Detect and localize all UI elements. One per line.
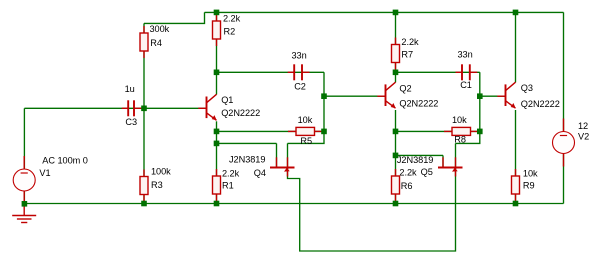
resistor R9 [512, 169, 520, 201]
node Q1 collector / C2 [214, 70, 220, 76]
svg-text:R1: R1 [222, 181, 234, 191]
svg-text:Q2N2222: Q2N2222 [399, 99, 438, 109]
node top rail / R2 [214, 10, 220, 16]
wire Q5 drain lead [442, 155, 444, 167]
svg-text:Q1: Q1 [221, 95, 233, 105]
wire top-left dogleg [144, 12, 205, 23]
svg-text:Q3: Q3 [521, 83, 533, 93]
node ground / V1 [22, 201, 28, 207]
svg-text:2.2k: 2.2k [223, 14, 241, 24]
resistor R2 [213, 14, 221, 46]
capacitor C2 [288, 64, 310, 80]
wire R7/Q2 collector column [395, 12, 397, 82]
node R6 / bottom rail [393, 201, 399, 207]
svg-text:R6: R6 [401, 181, 413, 191]
node R1 / bottom rail [214, 201, 220, 207]
svg-text:Q4: Q4 [254, 168, 266, 178]
resistor R1 [213, 169, 221, 201]
svg-text:V1: V1 [39, 168, 50, 178]
svg-text:12: 12 [578, 121, 588, 131]
svg-text:Q2N2222: Q2N2222 [521, 99, 560, 109]
node R8 / C1-out column [477, 129, 483, 135]
node top rail / Q3 collector [513, 10, 519, 16]
node Q1 emitter / R5 [214, 129, 220, 135]
wire bottom rail [24, 203, 563, 205]
wire Q4 source lead [287, 143, 289, 167]
wire Q3 emitter / R9 column [515, 110, 517, 204]
svg-text:10k: 10k [452, 115, 467, 125]
wire Q1 emitter column [216, 121, 218, 203]
wire Q3 base row [480, 95, 506, 97]
wire C2out/Q2base column [288, 72, 325, 143]
svg-text:R2: R2 [224, 27, 236, 37]
wire R8 row [396, 130, 480, 132]
wire row to Q5 drain [396, 154, 444, 156]
resistor R7 [392, 38, 400, 70]
svg-text:100k: 100k [151, 166, 171, 176]
svg-text:R8: R8 [454, 135, 466, 145]
svg-text:10k: 10k [298, 115, 313, 125]
wire Q2 base row [324, 95, 386, 97]
svg-text:R3: R3 [151, 180, 163, 190]
resistor R4 [140, 26, 148, 58]
wire V1 branch [23, 108, 25, 203]
wire row to Q4 drain [217, 142, 277, 144]
resistor R5 [288, 127, 322, 135]
svg-text:2.2k: 2.2k [222, 168, 240, 178]
svg-text:R5: R5 [300, 136, 312, 146]
resistor R8 [444, 127, 478, 135]
wire Q3 collector column [515, 12, 517, 82]
wire R2/Q1 collector column [216, 12, 218, 94]
voltage source V1 [13, 156, 35, 204]
svg-text:R9: R9 [523, 181, 535, 191]
node C2 out / Q2 base [321, 93, 327, 99]
svg-text:10k: 10k [523, 168, 538, 178]
svg-text:2.2k: 2.2k [399, 167, 417, 177]
node C3 / R4 / R3 / Q1 base [141, 106, 147, 112]
wire Q2 emitter column [395, 110, 397, 204]
svg-text:33n: 33n [458, 50, 473, 60]
wire Q4 drain lead [276, 143, 278, 167]
wire R5 row [217, 130, 325, 132]
svg-text:Q2: Q2 [399, 84, 411, 94]
svg-text:Q5: Q5 [421, 167, 433, 177]
node top rail / R7 [393, 10, 399, 16]
svg-text:33n: 33n [292, 51, 307, 61]
svg-text:2.2k: 2.2k [401, 37, 419, 47]
transistor Q1 (NPN Q2N2222) [198, 94, 216, 120]
wire Q5 source lead [455, 143, 457, 167]
transistor Q2 (NPN Q2N2222) [377, 82, 395, 108]
svg-text:AC 100m 0: AC 100m 0 [42, 156, 88, 166]
node Q2 emitter / Q5 drain row [393, 153, 399, 159]
node Q1 emitter / Q4 drain row [214, 141, 220, 147]
svg-text:300k: 300k [150, 24, 170, 34]
wire V2 column [563, 12, 565, 203]
capacitor C1 [456, 64, 478, 80]
node R5 / C2-out column [321, 129, 327, 135]
svg-text:J2N3819: J2N3819 [397, 155, 433, 165]
node C1 out / Q3 base [477, 93, 483, 99]
svg-text:C3: C3 [125, 117, 137, 127]
wire top rail [205, 11, 564, 13]
wire C1out/Q3base column [456, 72, 480, 143]
node R3 / bottom rail [141, 201, 147, 207]
transistor Q4 (JFET J2N3819) [270, 157, 295, 176]
wire input row to C3 [24, 107, 207, 109]
resistor R3 [140, 170, 148, 202]
resistor R6 [392, 169, 400, 201]
svg-text:J2N3819: J2N3819 [229, 154, 265, 164]
svg-text:R7: R7 [401, 50, 413, 60]
svg-text:C2: C2 [294, 82, 306, 92]
svg-text:V2: V2 [578, 132, 589, 142]
svg-text:R4: R4 [150, 38, 162, 48]
svg-text:Q2N2222: Q2N2222 [221, 108, 260, 118]
node Q2 emitter / R8 [393, 129, 399, 135]
wire C2 row (Q1 collector node) [217, 71, 325, 73]
transistor Q5 (JFET J2N3819) [438, 157, 463, 176]
wire column R4-R3 (node to Q1 base) [143, 23, 145, 203]
wire C1 row (Q2 collector node) [396, 71, 480, 73]
node R9 / bottom rail [513, 201, 519, 207]
capacitor C3 [122, 100, 142, 116]
node Q2 collector / C1 [393, 70, 399, 76]
svg-text:C1: C1 [460, 80, 472, 90]
wire feedback Q4 gate to Q5 gate [288, 168, 456, 252]
ground [12, 204, 36, 223]
svg-text:1u: 1u [125, 84, 135, 94]
voltage source V2 [553, 119, 575, 167]
transistor Q3 (NPN Q2N2222) [497, 82, 515, 108]
